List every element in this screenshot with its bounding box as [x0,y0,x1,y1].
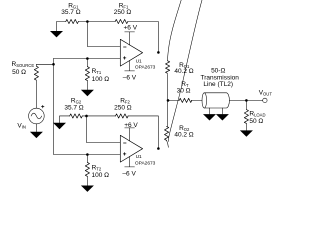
svg-text:RF2: RF2 [120,98,130,105]
svg-text:OPA2673: OPA2673 [135,64,156,70]
wire: node C down to lower + rail [54,64,121,154]
resistor RLOAD [244,110,248,124]
wire: long lead L1 from top into RO1 [168,0,182,61]
svg-text:RLOAD: RLOAD [249,111,265,118]
node RT2 junction [86,153,89,156]
svg-text:OPA2673: OPA2673 [135,161,156,167]
ground (TL2 right shield) [216,114,229,120]
ground (RG1) [50,31,63,37]
wire: RG1 to node A [78,21,87,23]
ground (VIN) [30,132,43,138]
wire: RLOAD top lead [245,100,247,109]
resistor RT1 [85,67,89,81]
node B (upper amp output) [157,51,160,54]
resistor RF2 [116,114,129,118]
wire: RT2 bottom lead [86,176,88,185]
svg-text:RT1: RT1 [92,68,102,75]
node A (inverting input junction, upper) [86,20,89,23]
wire: node A to RF1 [87,21,115,23]
ground (RT2) [81,186,94,192]
svg-text:–6 V: –6 V [122,170,136,177]
wire: RT1 bottom lead [86,81,88,90]
wire: TL2 shield stub left [209,108,211,114]
wire: RO2 tail [167,140,169,147]
svg-text:RT2: RT2 [92,164,102,171]
plus sign U1a [123,57,126,60]
ground (RT1) [81,90,94,96]
wire: RSOURCE top to node C [36,64,53,66]
wire: RT1 top lead [86,59,88,67]
resistor RG2 [70,114,83,118]
svg-text:+6 V: +6 V [124,122,138,129]
node RT1 junction [86,57,89,60]
wire: RG1 left lead to ground corner [57,22,66,32]
source VIN (sine generator) [29,108,45,124]
supply bar +6V upper [125,32,135,45]
op-amp U1b triangle [120,135,142,162]
node B2 (lower amp output) [157,147,160,150]
op-amp U1a triangle [120,39,142,66]
supply bar -6V lower [125,157,135,167]
ground (TL2 left shield) [203,114,216,120]
svg-text:30 Ω: 30 Ω [177,87,191,94]
supply bar +6V lower [125,128,135,141]
svg-text:50 Ω: 50 Ω [12,69,26,76]
svg-text:40.2 Ω: 40.2 Ω [174,68,193,75]
wire: VIN to ground [35,124,37,132]
ground (RLOAD) [240,130,253,136]
svg-text:40.2 Ω: 40.2 Ω [174,132,193,139]
svg-text:VOUT: VOUT [259,90,273,97]
wire: node A2 to RF2 [87,115,116,117]
node A2 (inverting input junction, lower) [85,115,88,118]
wire: node D to RT [168,99,179,101]
transmission line TL2 cylinder [202,93,207,108]
wire: node C up to + rail [53,59,55,65]
wire: node A down to inverting input U1a [87,22,120,47]
svg-text:VIN: VIN [17,122,26,129]
node C (source split junction) [52,63,55,66]
wire: RG2 left lead to ground corner [60,116,70,123]
wire: RG2 to node A2 [82,115,86,117]
plus sign U1b [123,153,126,156]
wire: RSOURCE to VIN source [35,81,37,108]
resistor RG1 [66,19,79,23]
svg-text:U1: U1 [136,154,142,160]
svg-text:+6 V: +6 V [124,24,138,31]
resistor RO1 [166,61,170,74]
terminal VOUT open circle [263,98,267,102]
wire: RF1 to output node B (feedback) [128,22,159,53]
wire: RT to transmission line [191,99,202,101]
minus sign U1a [124,46,127,48]
wire: TL2 shield stub right [221,108,223,114]
plus polarity mark at VIN [42,105,45,108]
node D (output summing junction) [167,99,170,102]
resistor RO2 [165,126,169,140]
svg-text:U1: U1 [136,58,142,64]
node E (RLOAD junction) [245,99,248,102]
wire: TL2 output to VOUT terminal [229,99,262,101]
svg-text:Line (TL2): Line (TL2) [203,81,233,88]
svg-text:250 Ω: 250 Ω [114,105,132,112]
wire: RO1 to node D and on down [166,74,168,126]
wire: noninverting rail upper [54,58,121,60]
svg-text:RSOURCE: RSOURCE [12,61,35,68]
svg-text:100 Ω: 100 Ω [92,172,110,179]
resistor RSOURCE [34,66,38,80]
supply bar -6V upper [125,61,135,71]
svg-text:250 Ω: 250 Ω [114,9,132,16]
ground (RG2) [53,123,66,129]
resistor RF1 [115,19,128,23]
resistor RT2 [85,162,89,176]
wire: node A2 down to inverting input U1b [87,116,121,143]
svg-text:100 Ω: 100 Ω [92,76,110,83]
resistor RT [179,98,192,102]
svg-text:35.7 Ω: 35.7 Ω [64,104,83,111]
minus sign U1b [124,142,127,144]
svg-text:–6 V: –6 V [123,74,137,81]
wire: RLOAD bottom lead [245,124,247,131]
svg-text:35.7 Ω: 35.7 Ω [61,9,80,16]
wire: RT2 top lead [86,155,88,163]
wire: long lead L2 from top to lower output [168,0,202,142]
wire: RF2 to output node B2 (feedback) [128,116,158,149]
svg-text:50 Ω: 50 Ω [249,118,263,125]
